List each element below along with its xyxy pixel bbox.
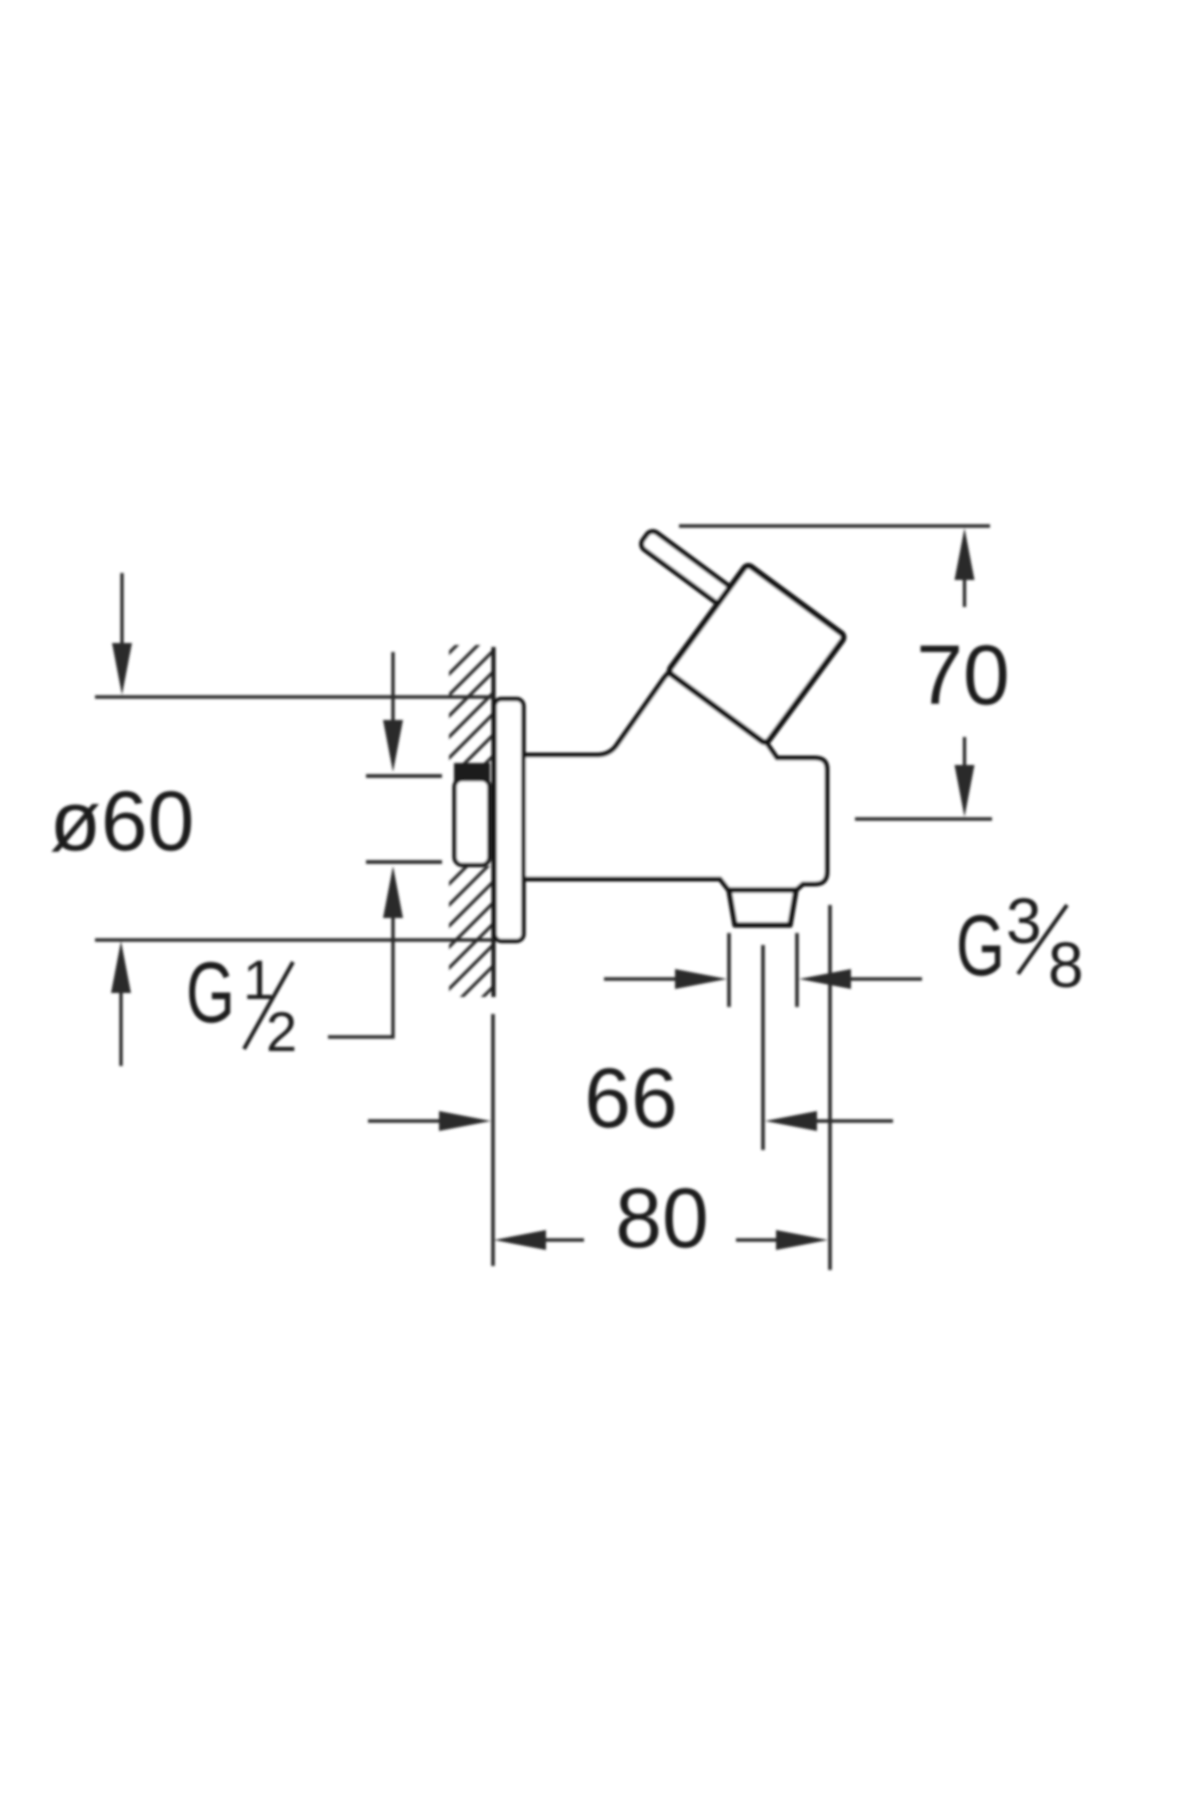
dim 66 right arrow [812, 1119, 893, 1122]
wall face extension line [491, 1014, 495, 1266]
svg-text:2: 2 [266, 1000, 297, 1063]
handle [668, 564, 846, 744]
dim 66 centerline extension [761, 945, 765, 1150]
dim G1/2 upper arrow [391, 652, 394, 725]
dim G1/2 lower arrow with leader [328, 913, 393, 1037]
dim G3/8 right arrow [846, 977, 922, 980]
concealed inlet dark fill [454, 763, 490, 781]
outlet nut G3/8 [729, 890, 796, 925]
svg-text:G: G [186, 945, 235, 1041]
dim o60 bottom extension line [95, 938, 492, 941]
dim G3/8 right extension line [795, 933, 799, 1007]
valve body [521, 671, 827, 892]
wall face line [491, 647, 495, 997]
dim 70 top reference line [679, 524, 990, 527]
dim o60 top extension line [95, 695, 492, 698]
dim 80 left arrow [541, 1238, 584, 1241]
svg-text:G: G [956, 898, 1005, 994]
dim 70 upper arrow [963, 575, 966, 607]
svg-text:66: 66 [584, 1051, 677, 1145]
dim 66 left arrow [368, 1119, 444, 1122]
wall hatching [438, 608, 494, 1063]
concealed inlet recess [455, 779, 490, 865]
lever rod [639, 529, 748, 617]
dim 80 right arrow [736, 1238, 781, 1241]
dim G1/2 upper tick [366, 774, 442, 778]
dim o60 lower arrow [119, 988, 122, 1066]
dim 70 lower arrow [963, 737, 966, 770]
dim G3/8 left extension line [727, 933, 731, 1007]
dim 70 bottom reference line [855, 817, 992, 820]
svg-text:70: 70 [916, 628, 1009, 722]
dim G1/2 lower tick [366, 860, 442, 864]
svg-text:ø60: ø60 [50, 774, 195, 868]
wall flange [495, 699, 524, 941]
dim o60 upper arrow [120, 573, 123, 648]
label G1/2 [186, 945, 297, 1063]
body edge extension line [828, 905, 832, 1270]
svg-text:80: 80 [615, 1171, 708, 1265]
label G3/8 [956, 885, 1084, 1001]
dim G3/8 left arrow [604, 977, 680, 980]
svg-text:8: 8 [1048, 929, 1084, 1001]
